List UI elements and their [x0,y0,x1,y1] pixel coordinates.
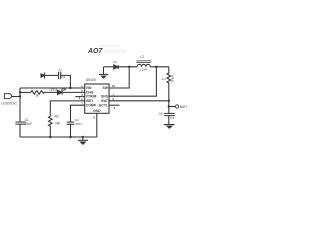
svg-text:ISET: ISET [86,99,94,103]
capacitor C3 [164,113,175,115]
pin numbers [81,84,115,119]
wire CHG line left [20,91,30,93]
node R2-rail [49,136,51,138]
connector J1 USB/DC [5,94,12,99]
svg-text:1k: 1k [35,94,39,98]
wire to BAT+ terminal [169,106,176,108]
wire input rail vertical [19,88,21,122]
node BAT+ branch [168,105,170,107]
wire arrow to C4 [45,74,59,76]
svg-text:8: 8 [93,116,95,120]
svg-text:9: 9 [114,106,116,110]
svg-text:GND: GND [93,109,101,113]
wire connector to rail [12,96,20,98]
svg-text:R2: R2 [55,115,59,119]
svg-text:COMP: COMP [86,103,97,107]
svg-text:USB/DC: USB/DC [1,101,17,105]
ground symbol bottom [82,136,84,138]
wire diode to SW node [118,66,137,68]
svg-text:10uF: 10uF [25,122,32,126]
wire LED to CHG pin [62,91,85,93]
arrow terminal [44,73,46,79]
svg-text:LED1: LED1 [50,88,58,92]
VTRIM stub [75,96,84,98]
wire ISET to R2 [50,101,84,116]
SW wire [109,67,129,88]
bottom ground rail [20,136,97,138]
GND pin wire [96,113,98,137]
node CHG branch [19,91,21,93]
capacitor C2 [67,122,74,124]
node junction connector-rail [19,95,21,97]
SNS branch wire [109,67,156,96]
svg-text:A9100: A9100 [86,78,96,82]
capacitor C1 [15,122,25,124]
node VIN junction [69,87,71,89]
svg-text:2.2uH: 2.2uH [139,67,146,71]
ground symbol right [164,124,175,126]
svg-text:L2: L2 [140,55,144,59]
top wire to diode [104,66,114,68]
wire COMP to C2 [71,105,85,122]
svg-text:24k: 24k [55,121,61,125]
diode D1 [114,65,118,69]
svg-text:SW: SW [103,86,109,90]
GCTL stub [109,104,120,106]
svg-text:D1: D1 [113,60,117,64]
BAT wire [109,100,169,102]
IC U1 A9100 [85,84,109,113]
watermark [87,45,127,55]
node L2 out [155,66,157,68]
resistor R2 24k [49,116,53,138]
resistor R1 1k [30,91,58,95]
capacitor C4 [59,72,61,80]
ground symbol top [103,67,105,74]
svg-text:AO7: AO7 [87,48,104,55]
svg-text:RSNS: RSNS [170,75,174,83]
svg-text:1u: 1u [59,67,63,71]
svg-text:0.1: 0.1 [162,77,167,81]
wire C4 to VIN node [61,75,71,88]
svg-text:BAT+: BAT+ [180,105,188,109]
svg-text:470n: 470n [75,122,82,126]
svg-text:10u: 10u [158,112,163,116]
svg-text:VIN: VIN [86,86,92,90]
resistor RSNS 0.1 [167,67,171,101]
node SW [128,66,130,68]
wire C3 to ground [168,116,170,125]
wire L2 to corner [150,66,169,68]
terminal BAT+ [175,105,178,108]
node BAT [168,100,170,102]
svg-text:C3: C3 [170,116,174,120]
node C2-rail [69,136,71,138]
wire down to BAT+ [168,101,170,114]
svg-text:BAT: BAT [101,99,109,103]
wire VIN line [20,87,85,89]
svg-text:GCTL: GCTL [99,103,108,107]
